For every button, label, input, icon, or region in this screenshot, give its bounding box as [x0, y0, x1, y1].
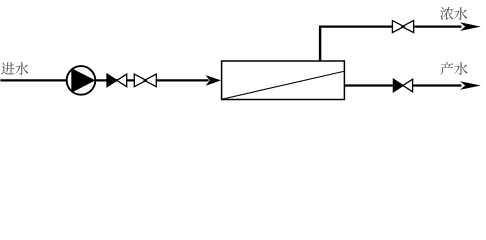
wire: concentrate riser: [319, 26, 321, 62]
wire: feed line: [0, 79, 208, 81]
arrow: concentrate out: [460, 22, 481, 31]
label jin-shui 进水: [1, 62, 28, 75]
wire: concentrate line: [319, 26, 462, 28]
valve V2: [392, 21, 413, 33]
pump P1: [67, 66, 96, 95]
check valve CV2: [393, 79, 412, 92]
arrow: feed into membrane: [206, 75, 221, 86]
arrow: product out: [460, 81, 481, 90]
membrane module M1: [222, 61, 345, 100]
valve V1: [134, 74, 156, 87]
check valve CV1: [107, 74, 127, 87]
label chan-shui 产水: [441, 62, 468, 75]
wire: product line: [344, 84, 461, 86]
label nong-shui 浓水: [440, 7, 467, 20]
